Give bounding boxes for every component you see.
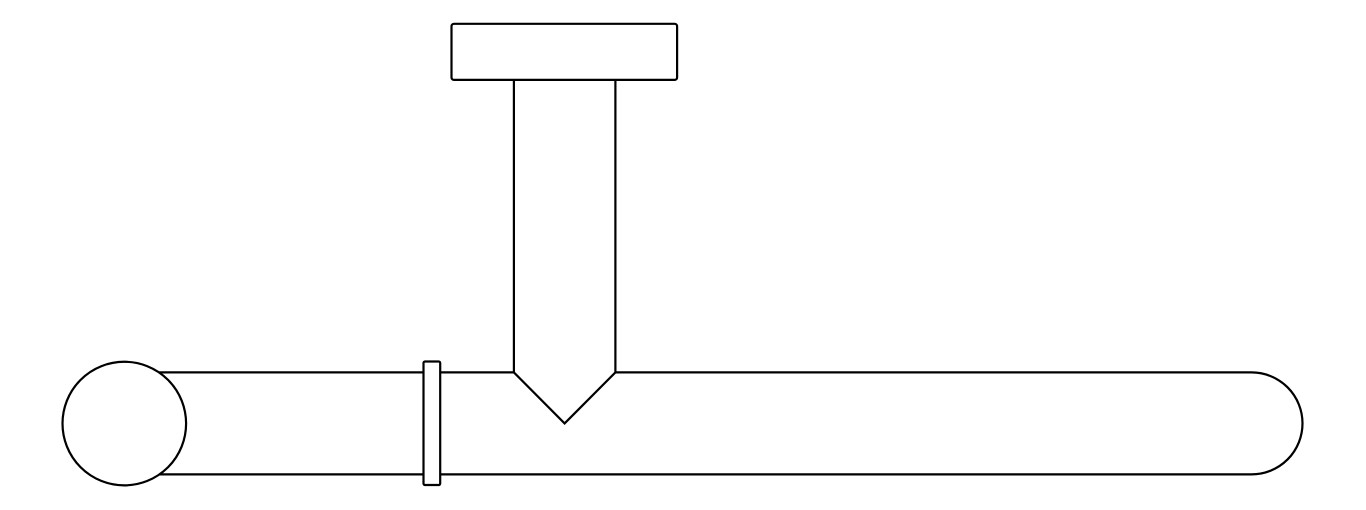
wall mounting plate — [452, 24, 678, 80]
horizontal roller bar with rounded right end — [125, 372, 1303, 474]
bracket arm with pointed tip — [514, 79, 616, 423]
left end post circle — [63, 362, 187, 486]
collar flange on bar — [424, 362, 441, 486]
